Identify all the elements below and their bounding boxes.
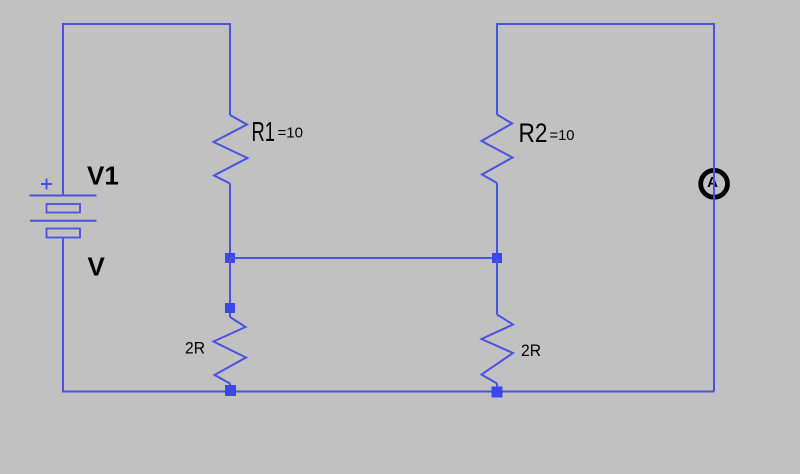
svg-text:=10: =10 [550,127,575,144]
svg-text:2R: 2R [185,339,205,358]
battery V1 plus sign [41,179,52,190]
wire: R2 branch lower vertical down to node [496,183,498,258]
wire: right vertical rail (drawn over ammeter) [713,23,715,392]
svg-text:R1: R1 [252,116,276,147]
wire: left vertical from top corner down to battery + plate [62,23,64,195]
wire: vertical from right node down to 2R [496,258,498,315]
svg-text:2R: 2R [521,341,541,360]
wire: R1 branch lower vertical down to node [229,184,231,259]
battery V1 lower cell rectangle [47,229,81,238]
wire: short vertical between left nodes [229,258,231,308]
svg-text:R2: R2 [519,118,548,148]
wire: R1 branch upper vertical [229,23,231,115]
wire: stub below right 2R [496,384,498,389]
wire: left vertical from battery bottom to bottom rail [62,238,64,392]
resistor R2 zigzag [482,115,513,184]
wire: stub below left 2R [229,384,231,389]
node: junction left-middle (square) [225,303,235,313]
node: junction left-upper (square) [225,253,235,263]
wire: middle horizontal between branches [230,257,497,259]
battery V1 middle plate [30,220,97,222]
svg-text:=10: =10 [278,125,304,142]
svg-text:V1: V1 [87,161,119,191]
ammeter A1 ring [701,170,728,197]
wire: R2 branch upper vertical [496,23,498,115]
wire: left loop top horizontal [62,23,231,25]
svg-text:V: V [88,252,106,282]
svg-text:A: A [707,174,718,191]
wire: stub above left 2R [229,313,231,317]
resistor R1 zigzag [214,115,248,184]
battery V1 upper cell rectangle [47,204,81,213]
wire: bottom rail horizontal [62,391,714,393]
wire: right loop top horizontal [496,23,715,25]
resistor 2R left zigzag [214,317,247,384]
node: junction right-bottom (square) [492,387,503,398]
node: junction left-bottom (square) [225,385,236,396]
node: junction right-upper (square) [492,253,502,263]
resistor 2R right zigzag [482,315,514,384]
battery V1 top plate [30,195,97,197]
